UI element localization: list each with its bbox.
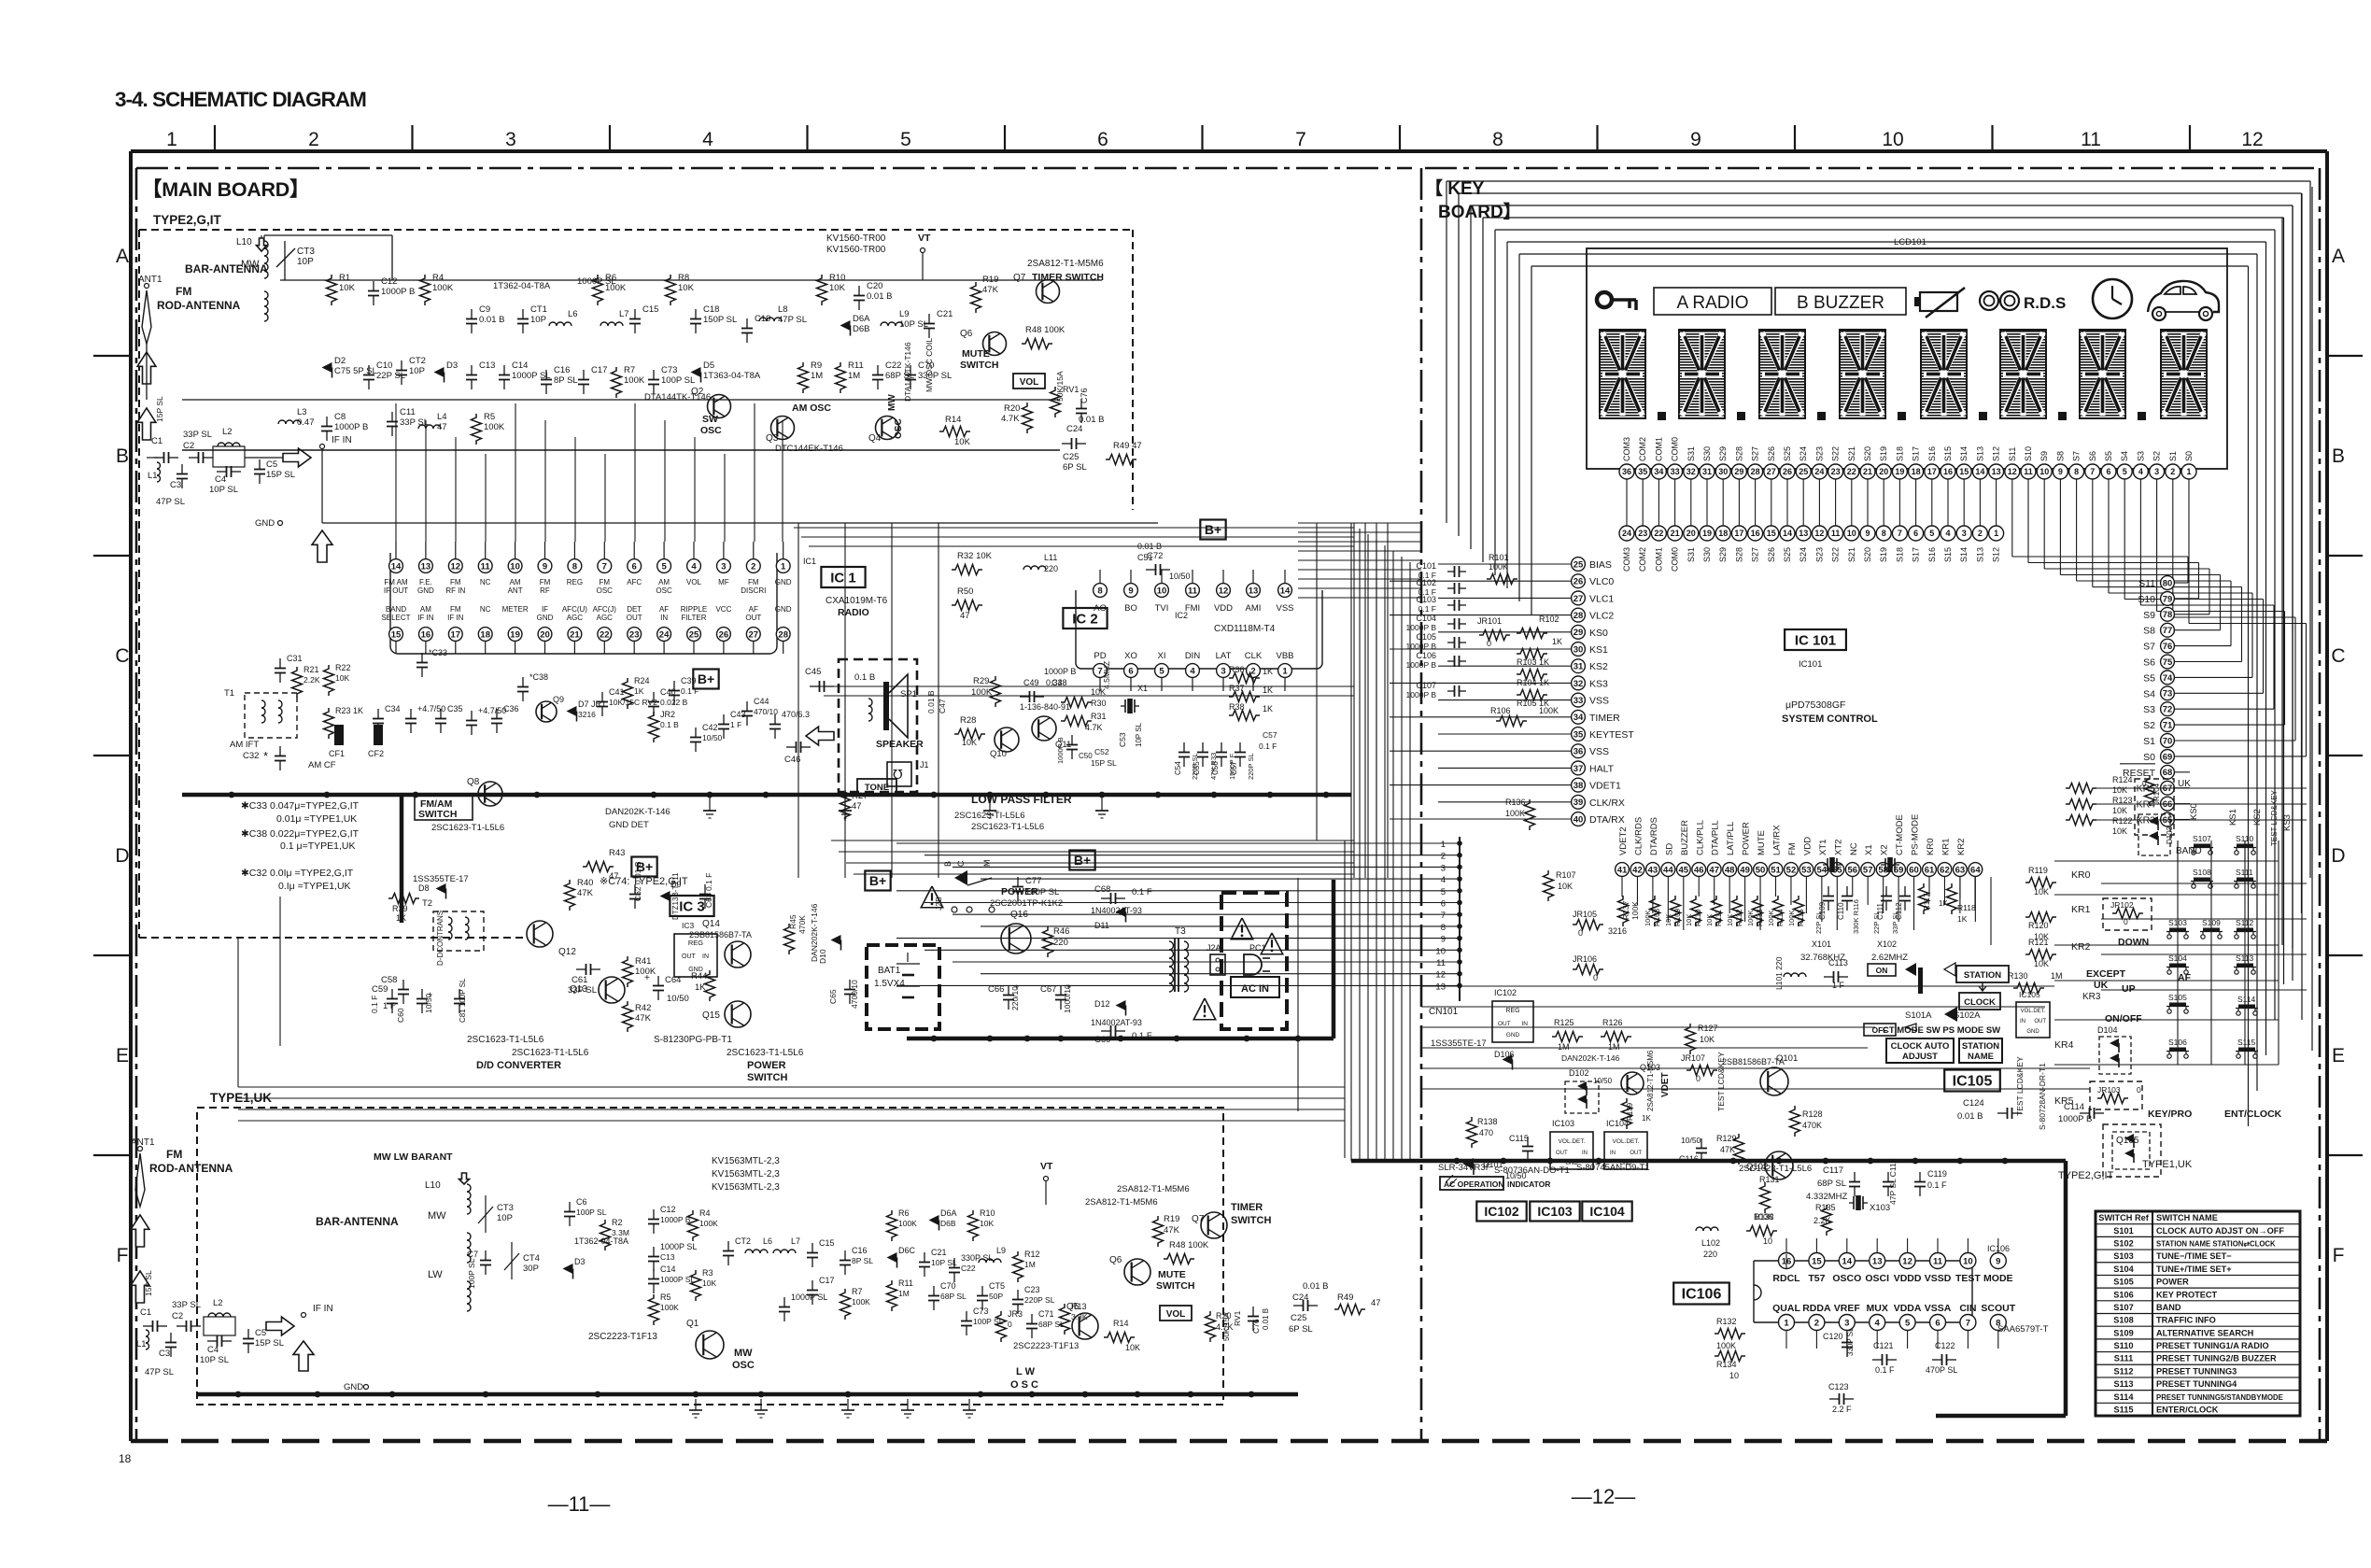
- svg-text:MUTE: MUTE: [1158, 1269, 1186, 1280]
- svg-text:R46: R46: [1053, 926, 1069, 937]
- svg-text:L2: L2: [213, 1298, 223, 1308]
- svg-text:69: 69: [2163, 752, 2173, 762]
- IC2 support parts R29 C48 R30: [926, 661, 1148, 768]
- svg-text:100K: 100K: [1716, 1341, 1736, 1350]
- component +4.7/50: [466, 706, 506, 735]
- component C40: [648, 687, 688, 716]
- svg-text:C71: C71: [1038, 1309, 1054, 1319]
- svg-text:L11: L11: [1044, 553, 1057, 562]
- IC101 pin 46 CLK/PLL: [1692, 820, 1706, 876]
- svg-text:20: 20: [1879, 467, 1888, 476]
- svg-text:100K: 100K: [1630, 901, 1640, 920]
- svg-text:2: 2: [751, 561, 755, 572]
- svg-text:C53: C53: [1118, 732, 1127, 747]
- svg-text:S6: S6: [2088, 451, 2097, 461]
- diode D10: [818, 935, 841, 964]
- svg-text:52: 52: [1786, 865, 1797, 875]
- svg-text:33: 33: [1671, 467, 1680, 476]
- svg-text:0.1 F: 0.1 F: [1132, 887, 1152, 897]
- svg-text:C117: C117: [1823, 1165, 1843, 1176]
- svg-text:R10: R10: [980, 1208, 995, 1218]
- svg-text:AM: AM: [658, 578, 670, 586]
- svg-text:0.01 B: 0.01 B: [1262, 1308, 1270, 1330]
- svg-text:100K: 100K: [699, 1219, 718, 1228]
- svg-text:ANT1: ANT1: [138, 275, 162, 285]
- svg-text:XO: XO: [1124, 651, 1137, 661]
- svg-text:R14: R14: [945, 415, 961, 425]
- svg-text:11: 11: [2024, 467, 2033, 476]
- component C13: [466, 360, 495, 389]
- jumper JR102 DOWN: [2103, 898, 2152, 948]
- svg-text:RDDA: RDDA: [1802, 1303, 1831, 1314]
- B+ box C74 note: [600, 520, 1226, 891]
- svg-text:SW: SW: [702, 414, 718, 425]
- capacitor C124 0.01 B: [1957, 1098, 2022, 1122]
- svg-text:SWITCH: SWITCH: [1156, 1280, 1194, 1292]
- svg-text:D103: D103: [2166, 826, 2174, 844]
- svg-text:XT2: XT2: [1833, 840, 1843, 855]
- svg-text:C25: C25: [1063, 452, 1079, 462]
- svg-text:47K: 47K: [1720, 1145, 1735, 1154]
- svg-text:*: *: [263, 749, 268, 763]
- IC101 pin 25 BIAS: [1572, 558, 1612, 572]
- component C17 TYPE1: [807, 1276, 835, 1305]
- svg-text:1000P SL: 1000P SL: [660, 1242, 697, 1251]
- svg-text:SWITCH: SWITCH: [747, 1072, 787, 1083]
- svg-text:FM: FM: [450, 605, 461, 614]
- electrolytic C66 220/10: [988, 982, 1020, 1010]
- svg-text:0.01μ =TYPE1,UK: 0.01μ =TYPE1,UK: [276, 813, 357, 825]
- svg-text:8: 8: [1441, 923, 1446, 933]
- capacitor C119 0.1F: [1914, 1169, 1947, 1196]
- svg-text:25: 25: [1799, 467, 1808, 476]
- svg-text:1K: 1K: [1263, 704, 1273, 713]
- svg-text:S4: S4: [2120, 451, 2129, 461]
- svg-text:JR105: JR105: [1573, 910, 1597, 919]
- svg-text:31: 31: [1702, 467, 1712, 476]
- svg-text:76: 76: [2163, 642, 2173, 652]
- svg-text:FM: FM: [176, 285, 191, 298]
- svg-text:C3: C3: [159, 1349, 170, 1359]
- row letters A-F left: [115, 246, 129, 1266]
- svg-text:CT2: CT2: [735, 1236, 751, 1246]
- transformer T1 AM IFT dashed: [224, 688, 297, 770]
- svg-text:0: 0: [2137, 1085, 2141, 1095]
- IC101 pin 78 S9: [2143, 607, 2174, 621]
- svg-text:2SC1623-T1-L5L6: 2SC1623-T1-L5L6: [727, 1048, 804, 1058]
- svg-text:3: 3: [2154, 467, 2159, 476]
- svg-text:D3: D3: [446, 360, 458, 371]
- svg-text:R113: R113: [1756, 909, 1764, 926]
- component C10 22P SL: [363, 360, 405, 389]
- svg-text:2SC2223-T1F13: 2SC2223-T1F13: [588, 1332, 657, 1342]
- transformer T3: [1169, 926, 1189, 992]
- resistor R127 10K JR107: [1681, 1024, 1785, 1083]
- svg-text:C1: C1: [151, 436, 162, 446]
- svg-text:DTA/RX: DTA/RX: [1589, 814, 1625, 826]
- svg-text:SWITCH: SWITCH: [1231, 1215, 1271, 1226]
- svg-text:KEY PROTECT: KEY PROTECT: [2156, 1290, 2218, 1299]
- svg-text:RADIO: RADIO: [838, 607, 869, 618]
- svg-text:S-80736AN-DO-T1: S-80736AN-DO-T1: [1494, 1165, 1570, 1176]
- svg-text:0.01 B: 0.01 B: [1957, 1111, 1983, 1122]
- component C39: [669, 676, 699, 705]
- svg-text:D-DCONTRANS: D-DCONTRANS: [436, 911, 445, 966]
- svg-text:Q101: Q101: [1776, 1053, 1798, 1064]
- svg-text:SD: SD: [1664, 843, 1674, 855]
- svg-text:F: F: [2333, 1245, 2345, 1266]
- svg-text:330K R116: 330K R116: [1852, 899, 1860, 934]
- svg-text:DTC144EK-T146: DTC144EK-T146: [775, 444, 843, 454]
- svg-text:2.2K: 2.2K: [1814, 1216, 1831, 1225]
- svg-text:4: 4: [1875, 1318, 1881, 1328]
- svg-text:10K: 10K: [962, 738, 977, 747]
- svg-text:35: 35: [1638, 467, 1647, 476]
- IC1 pin 3 MF: [717, 542, 731, 586]
- svg-text:IN: IN: [1522, 1021, 1529, 1027]
- svg-text:6: 6: [2106, 467, 2110, 476]
- svg-text:R28: R28: [960, 715, 976, 726]
- svg-text:JR103: JR103: [2097, 1085, 2121, 1095]
- svg-text:BO: BO: [1124, 603, 1137, 614]
- wires from pins 62 63 64 to KR rows: [1960, 877, 1991, 945]
- svg-text:S104: S104: [2113, 1264, 2134, 1274]
- svg-text:2: 2: [1441, 852, 1446, 862]
- label SLR-34VR3F S-80736AN-DO-T1 S-80745AN-D9-T1: [1438, 1163, 1650, 1176]
- svg-text:2: 2: [1250, 666, 1255, 676]
- IC101 pin 41 VDET2: [1616, 826, 1630, 876]
- AC IN block: [1193, 893, 1287, 1029]
- svg-text:S103: S103: [2113, 1251, 2133, 1261]
- column ruler numbers 1-12: [166, 129, 2264, 150]
- svg-text:2: 2: [2170, 467, 2175, 476]
- wire long rails lower main board: [238, 523, 1345, 1158]
- svg-text:21: 21: [570, 629, 580, 640]
- svg-text:6P SL: 6P SL: [1289, 1324, 1313, 1335]
- IC103 voltage detector box: [1550, 1119, 1593, 1169]
- IC101 pin 37 HALT: [1572, 761, 1615, 775]
- svg-text:2.62MHZ: 2.62MHZ: [1871, 953, 1908, 963]
- svg-text:S114: S114: [2237, 995, 2255, 1004]
- svg-text:26: 26: [1783, 467, 1792, 476]
- svg-text:2SA812-T1-M5M6: 2SA812-T1-M5M6: [1085, 1197, 1158, 1208]
- svg-text:S-80728AN-DR-T1: S-80728AN-DR-T1: [2038, 1063, 2047, 1130]
- svg-text:AM: AM: [420, 605, 431, 614]
- svg-text:COM1: COM1: [1654, 547, 1663, 572]
- svg-text:10K: 10K: [2034, 959, 2049, 968]
- transistor Q6 mute switch: [960, 325, 1066, 371]
- svg-text:10/50: 10/50: [702, 733, 723, 742]
- IC1 pin 20 IF: [537, 605, 554, 654]
- switch S112: [2234, 918, 2256, 939]
- svg-text:PRESET TUNNING3: PRESET TUNNING3: [2156, 1366, 2237, 1376]
- transistor Q14 2SB81586B7-TA: [689, 919, 752, 968]
- svg-text:SWITCH NAME: SWITCH NAME: [2156, 1213, 2218, 1222]
- svg-text:33P SL: 33P SL: [568, 985, 597, 996]
- component C73 TYPE1: [961, 1307, 1004, 1335]
- IC101 pin 38 VDET1: [1572, 778, 1621, 792]
- svg-text:C1: C1: [140, 1307, 151, 1318]
- svg-text:KV1560-TR00: KV1560-TR00: [826, 233, 886, 244]
- battery BAT1 1.5VX4: [867, 945, 939, 1029]
- svg-text:KS2: KS2: [1589, 661, 1608, 672]
- svg-text:T2: T2: [422, 898, 432, 909]
- svg-text:13: 13: [1435, 982, 1446, 992]
- svg-text:5: 5: [661, 561, 667, 572]
- svg-text:S16: S16: [1927, 547, 1937, 562]
- svg-text:BAT1: BAT1: [878, 966, 901, 976]
- svg-text:CT5: CT5: [989, 1281, 1005, 1291]
- svg-text:10/50: 10/50: [424, 993, 433, 1013]
- component C71 TYPE1: [1026, 1309, 1065, 1338]
- IC2 pin 5 XI: [1155, 651, 1169, 691]
- diode D102 pair: [1565, 1068, 1599, 1113]
- IC101 pin 34 TIMER: [1572, 710, 1620, 724]
- svg-text:CT4: CT4: [523, 1253, 540, 1264]
- svg-text:S5: S5: [2104, 451, 2113, 461]
- svg-text:C42: C42: [702, 723, 718, 732]
- IC105 label box: [1944, 1070, 2000, 1092]
- svg-text:TUNE−/TIME SET−: TUNE−/TIME SET−: [2156, 1251, 2232, 1261]
- component R4 TYPE1: [688, 1208, 719, 1241]
- svg-text:XI: XI: [1158, 651, 1166, 661]
- svg-text:R110: R110: [1694, 909, 1702, 926]
- svg-text:4.5MHZ: 4.5MHZ: [1102, 661, 1111, 689]
- svg-text:Q6: Q6: [960, 329, 973, 339]
- capacitor C64 10/50: [644, 973, 689, 1004]
- svg-text:KV1563MTL-2,3: KV1563MTL-2,3: [712, 1156, 780, 1166]
- svg-text:MUX: MUX: [1867, 1303, 1888, 1314]
- svg-text:S24: S24: [1799, 547, 1808, 562]
- svg-text:1K: 1K: [1552, 637, 1562, 646]
- capacitor C102 0.1 F: [1416, 578, 1466, 597]
- svg-text:C81 100P SL: C81 100P SL: [459, 978, 467, 1023]
- component C15 TYPE1: [807, 1238, 835, 1267]
- svg-text:1000/10: 1000/10: [1063, 984, 1072, 1013]
- svg-text:L3: L3: [297, 407, 307, 417]
- svg-text:VOL: VOL: [1020, 377, 1039, 388]
- svg-text:TIMER SWITCH: TIMER SWITCH: [1032, 272, 1104, 283]
- svg-text:IC 1: IC 1: [830, 570, 856, 586]
- svg-text:14: 14: [1842, 1256, 1853, 1266]
- svg-text:8: 8: [1882, 529, 1886, 538]
- svg-text:METER: METER: [502, 605, 529, 614]
- svg-text:4: 4: [2138, 467, 2143, 476]
- svg-text:D2: D2: [334, 356, 346, 366]
- row boundary ticks left: [93, 356, 131, 1155]
- svg-text:GND: GND: [775, 578, 792, 586]
- svg-text:18: 18: [1912, 467, 1921, 476]
- svg-text:100K: 100K: [1644, 910, 1652, 926]
- svg-text:17: 17: [1927, 467, 1937, 476]
- speaker SP1 dashed box: [839, 659, 917, 792]
- svg-text:1M: 1M: [1608, 1042, 1620, 1052]
- svg-text:TYPE1,UK: TYPE1,UK: [2142, 1159, 2193, 1170]
- svg-text:S22: S22: [1831, 547, 1841, 562]
- svg-text:6P SL: 6P SL: [1063, 462, 1087, 473]
- svg-text:60: 60: [1909, 865, 1919, 875]
- svg-text:VSS: VSS: [1589, 746, 1609, 757]
- component C34: [373, 704, 401, 733]
- capacitor C62 0.01 B: [629, 861, 642, 909]
- switch reference table: [2096, 1211, 2300, 1416]
- svg-text:S9: S9: [2039, 451, 2049, 461]
- component C14 1000P SL: [499, 360, 551, 389]
- svg-text:L1: L1: [136, 1339, 147, 1349]
- svg-text:CT1: CT1: [530, 304, 547, 315]
- svg-text:D6B: D6B: [853, 324, 869, 334]
- VT terminal TYPE1: [1040, 1161, 1053, 1205]
- LCD decimal point 1: [1658, 412, 1666, 420]
- svg-text:R103 1K: R103 1K: [1517, 657, 1549, 667]
- row boundary ticks right: [2327, 356, 2363, 1155]
- component C31: [275, 654, 303, 683]
- capacitors C109-C112 22P 33P: [1814, 883, 1976, 934]
- svg-text:10: 10: [1882, 129, 1903, 150]
- capacitor C113 1F: [1824, 958, 1848, 990]
- LCD 16-segment digit 8: [2161, 330, 2207, 418]
- svg-text:BAR-ANTENNA: BAR-ANTENNA: [316, 1215, 399, 1228]
- component L7: [600, 309, 629, 326]
- svg-text:9: 9: [1690, 129, 1701, 150]
- svg-text:VBB: VBB: [1276, 651, 1293, 661]
- svg-text:X102: X102: [1877, 939, 1897, 949]
- svg-text:DET: DET: [627, 605, 642, 614]
- svg-text:ANT: ANT: [508, 586, 523, 595]
- component R10 10K: [817, 273, 846, 305]
- component R23 1K: [324, 706, 364, 739]
- svg-text:IN: IN: [660, 614, 668, 622]
- svg-text:470K: 470K: [797, 915, 807, 934]
- resistor R45 470K DAN202K: [784, 903, 820, 962]
- STATION NAME box: [1959, 1038, 2002, 1063]
- svg-text:B: B: [116, 445, 129, 467]
- svg-text:330P SL: 330P SL: [961, 1253, 993, 1263]
- svg-text:1M: 1M: [811, 371, 823, 381]
- component *C33: [416, 648, 447, 677]
- svg-text:L10: L10: [425, 1180, 441, 1191]
- svg-text:Q14: Q14: [702, 919, 720, 929]
- svg-text:C17: C17: [591, 365, 607, 375]
- capacitor C107 1000P B: [1406, 681, 1466, 699]
- svg-text:10: 10: [1157, 586, 1167, 596]
- svg-text:CT3: CT3: [497, 1203, 514, 1213]
- IC106 pin 1 QUAL: [1772, 1303, 1800, 1331]
- svg-text:64: 64: [1970, 865, 1981, 875]
- speaker SP1 symbol: [868, 674, 924, 750]
- svg-text:31: 31: [1574, 662, 1584, 672]
- svg-text:S26: S26: [1767, 446, 1776, 461]
- transistor Q8 FM/AM switch: [415, 777, 504, 833]
- svg-text:CXA1019M-T6: CXA1019M-T6: [826, 596, 888, 606]
- svg-text:7: 7: [1295, 129, 1306, 150]
- IC1 pin 15 BAND: [381, 605, 410, 654]
- svg-text:AFC(J): AFC(J): [593, 605, 617, 614]
- svg-text:1M: 1M: [848, 371, 860, 381]
- svg-text:D6B: D6B: [940, 1219, 956, 1228]
- jumper JR101: [1477, 616, 1510, 648]
- IC106 pin 9 MODE: [1983, 1253, 2013, 1285]
- svg-text:100K: 100K: [1746, 910, 1755, 926]
- svg-text:PC1: PC1: [1249, 943, 1266, 953]
- component JR2: [649, 710, 680, 742]
- B BUZZER indicator box: [1775, 288, 1906, 315]
- svg-text:S111: S111: [2236, 868, 2253, 877]
- svg-text:S20: S20: [1863, 446, 1872, 461]
- outer border frame: [131, 151, 2327, 1441]
- svg-text:JR107: JR107: [1681, 1053, 1705, 1063]
- IC101 pin 52 FM: [1785, 842, 1799, 876]
- IC1 pin 12 FM: [445, 542, 465, 595]
- label ON/OFF D104: [2054, 1013, 2142, 1074]
- svg-text:35: 35: [1574, 729, 1584, 740]
- IC1 label box: [821, 567, 865, 587]
- svg-text:VLC2: VLC2: [1589, 611, 1614, 622]
- svg-text:1K: 1K: [695, 982, 706, 993]
- svg-text:50P: 50P: [989, 1292, 1003, 1301]
- svg-text:IN: IN: [1610, 1151, 1616, 1156]
- svg-text:47P SL: 47P SL: [145, 1367, 174, 1377]
- svg-text:※C74: TYPE2,G,IT: ※C74: TYPE2,G,IT: [600, 876, 688, 887]
- svg-text:AGC: AGC: [597, 614, 614, 622]
- svg-text:C20: C20: [867, 281, 882, 291]
- svg-text:C7: C7: [467, 1250, 478, 1260]
- svg-text:KV1563MTL-2,3: KV1563MTL-2,3: [712, 1169, 780, 1180]
- headphones R.D.S icon: [1980, 291, 2066, 312]
- svg-text:COM0: COM0: [1671, 437, 1680, 461]
- svg-text:R126: R126: [1602, 1018, 1623, 1027]
- svg-text:R2: R2: [612, 1218, 623, 1227]
- svg-text:1N4002AT-93: 1N4002AT-93: [1091, 906, 1142, 915]
- svg-text:2: 2: [1978, 529, 1983, 538]
- svg-text:VSS: VSS: [1276, 603, 1293, 614]
- svg-text:33P SL: 33P SL: [172, 1300, 201, 1310]
- component R12 TYPE1: [1013, 1250, 1040, 1282]
- svg-text:S21: S21: [1847, 547, 1856, 562]
- component C41: [597, 687, 657, 716]
- svg-text:7: 7: [602, 561, 607, 572]
- svg-text:S11: S11: [2008, 447, 2017, 461]
- svg-text:D5: D5: [703, 360, 714, 371]
- LCD decimal point 2: [1737, 412, 1745, 420]
- IC101 pin 50 MUTE: [1754, 830, 1768, 876]
- svg-text:14: 14: [1783, 529, 1792, 538]
- svg-text:IF IN: IF IN: [332, 435, 352, 445]
- svg-text:KR4: KR4: [2054, 1039, 2074, 1051]
- svg-text:L7: L7: [619, 309, 629, 319]
- VOL box RV1 TYPE1: [1160, 1306, 1242, 1342]
- svg-text:15P SL: 15P SL: [1091, 758, 1117, 768]
- IC101 pin 80 S11: [2138, 576, 2174, 590]
- svg-text:VSSA: VSSA: [1925, 1303, 1952, 1314]
- resistor R27 47: [840, 790, 868, 821]
- svg-text:2SC1623-T1-L5L6: 2SC1623-T1-L5L6: [467, 1035, 544, 1045]
- svg-text:C119: C119: [1927, 1169, 1947, 1179]
- switch S104: [2166, 954, 2189, 974]
- svg-text:RV1: RV1: [1063, 385, 1079, 394]
- LCD 16-segment digit 4: [1840, 330, 1885, 418]
- svg-text:R9: R9: [811, 360, 822, 371]
- svg-text:0: 0: [2142, 780, 2147, 788]
- svg-text:μPD75308GF: μPD75308GF: [1785, 699, 1845, 711]
- svg-text:4.332MHZ: 4.332MHZ: [1806, 1192, 1848, 1202]
- capacitor C114 1000P B: [2058, 1102, 2104, 1124]
- IC2 pin 7 PD: [1094, 651, 1108, 691]
- TYPE1,UK dashed region box: [197, 1108, 1223, 1405]
- svg-text:S9: S9: [2143, 610, 2155, 621]
- IC106 pin 7 CIN: [1959, 1303, 1976, 1331]
- svg-text:12: 12: [1814, 529, 1824, 538]
